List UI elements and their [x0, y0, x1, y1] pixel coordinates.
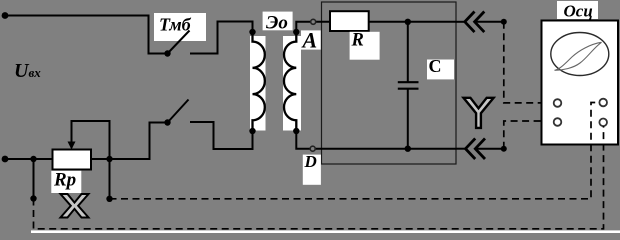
svg-text:D: D [304, 152, 317, 171]
transformer Эо right winding background [283, 36, 301, 131]
dashed wire Y ground [504, 121, 554, 149]
potentiometer Rp body [53, 150, 92, 170]
node A terminal circle [311, 19, 316, 24]
transformer primary top dot [249, 29, 255, 35]
switch S2 pivot dot [164, 119, 170, 125]
label box D [303, 155, 321, 185]
label box R [350, 32, 380, 60]
node ground stub dot [30, 195, 36, 201]
node D terminal circle [310, 146, 315, 151]
wire capacitor branch bottom [407, 90, 409, 149]
wire switch to transformer primary top [190, 22, 253, 54]
switch Тмб blade [168, 31, 190, 54]
symbol Y channel letter [464, 98, 494, 128]
wire primary bottom loop to lower switch [190, 122, 253, 149]
wire secondary top to R [296, 22, 330, 32]
wire ground stub down [33, 159, 35, 199]
transformer Эо left winding [253, 33, 265, 130]
symbol X channel letter [61, 194, 89, 218]
svg-text:C: C [429, 56, 442, 76]
transformer Эо right winding [284, 33, 296, 130]
wire R to capacitor node [369, 21, 456, 23]
wire lower switch to potentiometer [91, 123, 168, 160]
dashed wire X bus [110, 103, 600, 199]
switch Тмб pivot dot [164, 50, 170, 56]
white margin strip bottom [31, 230, 620, 233]
wire top rail to plug Y [456, 21, 465, 23]
svg-text:Rp: Rp [53, 170, 76, 191]
label box Тмб [154, 13, 206, 41]
node input top dot [2, 12, 9, 19]
wire potentiometer to input bottom [5, 158, 53, 160]
label box Rp [51, 171, 81, 193]
oscilloscope terminal right top [599, 99, 607, 107]
svg-text:R: R [351, 30, 364, 50]
dashed wire Y signal [504, 22, 554, 103]
oscilloscope screen ellipse [551, 33, 609, 76]
plug chevrons top [465, 12, 475, 33]
transformer secondary top dot [293, 29, 299, 35]
wire top input horizontal [5, 15, 149, 17]
svg-text:Тмб: Тмб [159, 15, 192, 35]
oscilloscope Осц body [542, 21, 619, 145]
junction dot right of Rp [106, 156, 112, 162]
junction dot R-C bottom [405, 146, 411, 152]
enclosure box around RC filter [322, 2, 457, 164]
junction dot left of Rp [30, 156, 36, 162]
dashed wire ground bus [34, 126, 604, 229]
oscilloscope trace curve [555, 42, 602, 70]
transformer Эо left winding background [248, 36, 266, 131]
wire input down to switch [149, 15, 168, 54]
plug chevrons bottom [466, 138, 476, 159]
svg-text:Эо: Эо [266, 12, 288, 33]
transformer primary bottom dot [249, 128, 255, 134]
label box A [301, 30, 321, 49]
node input bottom dot [2, 156, 9, 163]
potentiometer wiper arrow head [68, 142, 76, 150]
node X stub dot [106, 196, 112, 202]
resistor R body [330, 11, 369, 31]
label box C [427, 60, 454, 80]
potentiometer wiper link wire [72, 121, 110, 159]
oscilloscope terminal left bottom [554, 118, 562, 126]
wire capacitor branch top [407, 22, 409, 82]
svg-text:А: А [301, 28, 318, 53]
wire bottom rail to plug [456, 148, 466, 150]
transformer secondary bottom dot [293, 128, 299, 134]
wire secondary bottom rail [296, 130, 456, 149]
wire X stub down [109, 159, 111, 199]
switch S2 blade [168, 100, 189, 123]
wire plug bottom to dot [475, 148, 504, 150]
label box Эо [263, 12, 293, 31]
svg-text:Осц: Осц [564, 2, 593, 21]
oscilloscope terminal right bottom [599, 119, 607, 127]
capacitor C plates [398, 81, 419, 83]
svg-text:Uвх: Uвх [14, 60, 41, 82]
node plug bottom dot [501, 146, 507, 152]
node plug top dot [501, 19, 507, 25]
junction dot R-C top [405, 19, 411, 25]
wire plug top to dot [475, 21, 504, 23]
oscilloscope terminal left top [554, 99, 562, 107]
label box Осц [557, 1, 598, 19]
